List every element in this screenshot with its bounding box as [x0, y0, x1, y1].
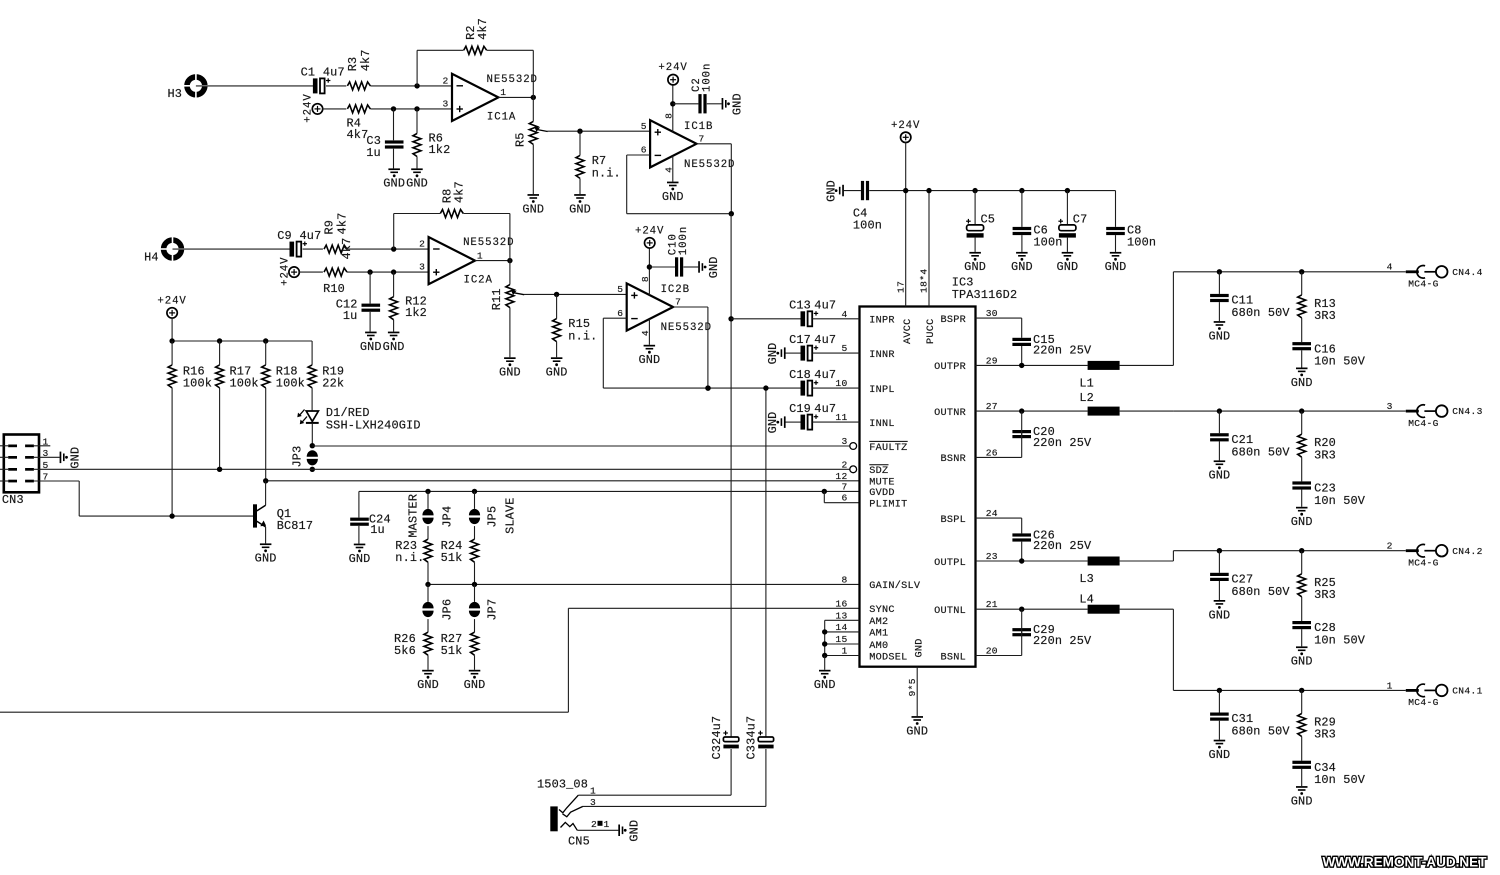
svg-text:L2: L2 — [1079, 391, 1094, 405]
svg-text:GND: GND — [1291, 376, 1313, 390]
svg-text:OUTNL: OUTNL — [934, 606, 966, 617]
svg-text:8: 8 — [841, 574, 847, 585]
+24V supply — [635, 225, 664, 248]
svg-text:GND: GND — [662, 190, 684, 204]
svg-text:H4: H4 — [144, 250, 159, 264]
resistor R9 4k7 — [323, 213, 354, 260]
svg-text:29: 29 — [986, 355, 998, 366]
wire — [976, 655, 1022, 657]
svg-text:MUTE: MUTE — [869, 478, 894, 489]
svg-text:PUCC: PUCC — [926, 319, 937, 344]
ground — [1208, 460, 1230, 482]
svg-text:SSH-LXH240GID: SSH-LXH240GID — [326, 418, 421, 432]
resistor R12 1k2 — [390, 272, 427, 332]
resistor R8 4k7 — [440, 181, 466, 217]
svg-text:4u7: 4u7 — [814, 402, 836, 416]
svg-text:GND: GND — [825, 180, 839, 202]
svg-text:100n: 100n — [1033, 235, 1062, 249]
svg-text:1k2: 1k2 — [405, 306, 427, 320]
svg-text:GAIN/SLV: GAIN/SLV — [869, 580, 921, 592]
svg-text:GND: GND — [464, 678, 486, 692]
svg-text:680n 50V: 680n 50V — [1231, 585, 1290, 599]
ground — [522, 194, 544, 216]
svg-text:4u7: 4u7 — [814, 368, 836, 382]
svg-text:INNL: INNL — [869, 419, 894, 430]
svg-text:CN5: CN5 — [568, 834, 590, 848]
capacitor C31 680n 50V — [1210, 690, 1290, 739]
svg-text:AM2: AM2 — [869, 617, 888, 628]
svg-text:1503_08: 1503_08 — [537, 778, 588, 792]
svg-text:1: 1 — [841, 646, 847, 657]
svg-text:4: 4 — [841, 309, 847, 320]
svg-text:2: 2 — [419, 239, 425, 250]
wire — [1120, 609, 1174, 690]
svg-text:24: 24 — [986, 508, 998, 519]
svg-text:3R3: 3R3 — [1314, 728, 1336, 742]
svg-text:NE5532D: NE5532D — [463, 237, 514, 249]
svg-text:220n 25V: 220n 25V — [1033, 634, 1092, 648]
wire FAULTZ net — [312, 445, 850, 447]
svg-text:2: 2 — [442, 75, 448, 86]
junction — [1217, 269, 1305, 274]
resistor R5 trimmer — [514, 97, 548, 194]
svg-text:6: 6 — [617, 308, 623, 319]
inductor L3 — [1079, 557, 1119, 586]
svg-text:+24V: +24V — [891, 120, 920, 132]
svg-text:R3: R3 — [346, 57, 360, 72]
wire — [0, 446, 8, 481]
svg-text:1u: 1u — [366, 146, 381, 160]
ground — [383, 168, 405, 190]
svg-text:+24V: +24V — [279, 257, 291, 286]
svg-text:L1: L1 — [1079, 376, 1094, 390]
wire — [976, 517, 1022, 519]
svg-text:680n 50V: 680n 50V — [1231, 445, 1290, 459]
wire SYNC net — [0, 608, 860, 712]
svg-text:51k: 51k — [441, 644, 463, 658]
svg-text:GND: GND — [1291, 655, 1313, 669]
junction — [310, 467, 315, 472]
svg-text:5k6: 5k6 — [394, 644, 416, 658]
ground — [1208, 600, 1230, 622]
svg-text:CN4.4: CN4.4 — [1452, 267, 1483, 278]
ground — [349, 544, 371, 566]
svg-text:1: 1 — [604, 819, 610, 830]
ground — [638, 319, 660, 367]
svg-text:GND: GND — [69, 447, 83, 469]
inductor L2 — [1079, 391, 1119, 416]
capacitor C15 220n 25V — [1012, 318, 1092, 365]
ground — [1208, 740, 1230, 762]
svg-text:GND: GND — [499, 366, 521, 380]
svg-text:6: 6 — [841, 493, 847, 504]
wire — [603, 318, 708, 388]
svg-text:R10: R10 — [323, 282, 345, 296]
svg-text:JP4: JP4 — [441, 506, 455, 528]
wire — [299, 271, 323, 273]
connector CN3 — [2, 435, 49, 507]
svg-text:BSNR: BSNR — [941, 454, 966, 465]
svg-text:51k: 51k — [441, 551, 463, 565]
wire — [347, 248, 429, 250]
svg-text:H3: H3 — [168, 87, 183, 101]
capacitor C34 10n 50V — [1292, 761, 1365, 787]
wire MUTE net — [263, 478, 860, 483]
svg-text:1u: 1u — [343, 309, 358, 323]
wire OUTPR — [976, 363, 1088, 368]
capacitor C10 100n — [649, 226, 698, 277]
svg-text:GND: GND — [766, 412, 780, 434]
svg-text:3: 3 — [1387, 401, 1393, 412]
svg-text:12: 12 — [835, 471, 847, 482]
svg-text:+24V: +24V — [635, 225, 664, 237]
capacitor C3 1u — [366, 109, 403, 168]
svg-text:BSPL: BSPL — [941, 515, 966, 526]
capacitor C32 4u7 — [710, 716, 739, 760]
svg-text:9*5: 9*5 — [907, 678, 918, 696]
svg-text:GND: GND — [522, 202, 544, 216]
ground — [1208, 321, 1230, 343]
ground — [722, 93, 745, 115]
svg-text:GND: GND — [1208, 469, 1230, 483]
capacitor C13 4u7 — [789, 299, 859, 327]
wire — [326, 85, 346, 87]
svg-text:3R3: 3R3 — [1314, 309, 1336, 323]
resistor R25 3R3 — [1298, 551, 1336, 621]
capacitor C24 1u — [350, 491, 391, 543]
svg-text:15: 15 — [835, 634, 847, 645]
svg-text:IC2A: IC2A — [464, 275, 493, 287]
wire — [370, 85, 452, 87]
svg-text:220n 25V: 220n 25V — [1033, 539, 1092, 553]
svg-text:GND: GND — [1105, 260, 1127, 274]
svg-text:CN4.2: CN4.2 — [1452, 546, 1483, 557]
op-amp IC2A — [419, 237, 514, 287]
svg-text:GND: GND — [1208, 608, 1230, 622]
svg-text:2: 2 — [591, 819, 597, 830]
ground — [1056, 252, 1078, 274]
svg-text:C5: C5 — [981, 212, 996, 226]
wire — [627, 155, 732, 214]
svg-text:OUTNR: OUTNR — [934, 408, 966, 419]
connector H3 input pad — [168, 73, 209, 101]
svg-text:L4: L4 — [1079, 593, 1094, 607]
capacitor C2 100n — [673, 63, 722, 114]
svg-text:1: 1 — [477, 250, 483, 261]
svg-text:GND: GND — [766, 343, 780, 365]
wire — [670, 85, 675, 132]
wire SDZ net — [34, 467, 850, 472]
wire — [310, 423, 315, 449]
resistor R4 4k7 — [347, 105, 371, 142]
svg-text:GND: GND — [360, 340, 382, 354]
resistor R15 n.i. — [553, 294, 598, 357]
wire OUTPL — [976, 558, 1088, 563]
svg-text:4u7: 4u7 — [323, 66, 345, 80]
svg-text:100n: 100n — [702, 63, 714, 92]
capacitor C6 100n — [1013, 191, 1063, 252]
svg-text:R5: R5 — [514, 132, 528, 147]
capacitor C12 1u — [336, 272, 380, 332]
svg-text:18*4: 18*4 — [919, 269, 930, 293]
wire +24V rail — [869, 142, 1115, 306]
svg-text:C324u7: C324u7 — [710, 716, 724, 760]
svg-text:4k7: 4k7 — [476, 18, 490, 40]
svg-text:GND: GND — [546, 366, 568, 380]
svg-text:MC4-G: MC4-G — [1408, 697, 1439, 708]
svg-text:SDZ: SDZ — [869, 466, 888, 477]
svg-text:2: 2 — [841, 459, 847, 470]
wire — [322, 108, 346, 110]
svg-text:7: 7 — [675, 297, 681, 308]
svg-text:3R3: 3R3 — [1314, 448, 1336, 462]
svg-text:4u7: 4u7 — [814, 299, 836, 313]
svg-text:3R3: 3R3 — [1314, 588, 1336, 602]
ground — [1291, 507, 1313, 529]
svg-text:4k7: 4k7 — [359, 49, 373, 71]
svg-text:n.i.: n.i. — [592, 167, 621, 181]
resistor R19 22k — [308, 341, 344, 411]
svg-text:14: 14 — [835, 622, 847, 633]
op-amp IC1A — [442, 74, 537, 124]
capacitor C5 100u — [966, 191, 995, 252]
junction — [1217, 548, 1305, 553]
ground — [1291, 646, 1313, 668]
svg-text:BSNL: BSNL — [941, 652, 966, 663]
svg-text:4k7: 4k7 — [336, 213, 350, 235]
svg-text:AM1: AM1 — [869, 629, 888, 640]
ground — [406, 168, 428, 190]
jumper JP3 — [291, 446, 318, 468]
wire — [673, 307, 711, 391]
wire — [498, 95, 536, 100]
capacitor C29 220n 25V — [1012, 609, 1092, 655]
svg-text:7: 7 — [841, 481, 847, 492]
svg-text:NE5532D: NE5532D — [487, 74, 538, 86]
svg-text:GND: GND — [1291, 794, 1313, 808]
svg-text:2: 2 — [1387, 541, 1393, 552]
junction — [414, 83, 419, 88]
capacitor C8 100n — [1106, 191, 1156, 252]
svg-text:10n 50V: 10n 50V — [1314, 494, 1366, 508]
svg-text:100k: 100k — [183, 376, 212, 390]
capacitor C28 10n 50V — [1292, 621, 1365, 647]
svg-text:10n 50V: 10n 50V — [1314, 355, 1366, 369]
resistor R18 100k — [262, 341, 305, 481]
svg-text:22k: 22k — [322, 376, 344, 390]
wire — [976, 456, 1022, 458]
svg-text:13: 13 — [835, 610, 847, 621]
svg-text:4u7: 4u7 — [300, 229, 322, 243]
wire — [583, 805, 766, 807]
+24V supply — [279, 257, 299, 286]
svg-text:L3: L3 — [1079, 572, 1094, 586]
svg-text:C334u7: C334u7 — [745, 716, 759, 760]
svg-text:GND: GND — [731, 93, 745, 115]
svg-text:26: 26 — [986, 447, 998, 458]
wire — [976, 317, 1022, 319]
resistor R6 1k2 — [413, 109, 450, 168]
svg-text:IC1B: IC1B — [684, 121, 713, 133]
ground — [964, 252, 986, 274]
wire — [1120, 551, 1174, 561]
wire — [475, 258, 513, 263]
ground — [417, 670, 439, 692]
wire — [303, 248, 323, 250]
wire — [578, 794, 731, 796]
svg-text:BSPR: BSPR — [941, 315, 966, 326]
resistor R7 n.i. — [576, 131, 621, 194]
wire — [169, 318, 312, 344]
svg-text:10: 10 — [835, 378, 847, 389]
wire — [464, 214, 510, 261]
resistor R2 4k7 — [464, 18, 490, 54]
LED D1 SSH-LXH240GID — [297, 406, 420, 432]
capacitor C16 10n 50V — [1292, 342, 1365, 368]
svg-text:GND: GND — [1208, 748, 1230, 762]
svg-text:+24V: +24V — [303, 93, 315, 122]
capacitor C26 220n 25V — [1012, 518, 1092, 561]
svg-text:100n: 100n — [1127, 235, 1156, 249]
wire OUTNR — [976, 408, 1088, 413]
ground — [464, 670, 486, 692]
svg-text:MC4-G: MC4-G — [1408, 418, 1439, 429]
wire — [730, 749, 732, 795]
capacitor C20 220n 25V — [1012, 411, 1092, 457]
ground — [1011, 252, 1033, 274]
svg-text:GND: GND — [255, 552, 277, 566]
svg-text:3: 3 — [419, 262, 425, 273]
svg-text:27: 27 — [986, 401, 998, 412]
wire — [731, 318, 800, 320]
capacitor C19 4u7 — [766, 402, 859, 434]
wire — [196, 85, 313, 87]
inductor L1 — [1079, 361, 1119, 391]
wire — [370, 108, 452, 110]
wire GVDD net — [359, 489, 860, 494]
svg-text:C17: C17 — [789, 333, 811, 347]
+24V supply — [157, 295, 186, 318]
svg-text:C9: C9 — [277, 229, 292, 243]
svg-text:17: 17 — [895, 281, 906, 293]
svg-text:GND: GND — [349, 552, 371, 566]
IC U3 TPA3116D2 box — [860, 276, 1018, 667]
svg-text:JP3: JP3 — [291, 446, 305, 468]
svg-text:23: 23 — [986, 551, 998, 562]
resistor R24 51k — [441, 539, 479, 585]
svg-text:C18: C18 — [789, 368, 811, 382]
ground — [825, 180, 844, 202]
connector CN5 1503_08 — [537, 778, 610, 849]
wire — [647, 248, 652, 295]
ground — [34, 447, 83, 469]
wire — [347, 271, 429, 273]
svg-text:C7: C7 — [1073, 212, 1088, 226]
svg-text:INPL: INPL — [869, 385, 894, 396]
svg-text:BC817: BC817 — [277, 519, 313, 533]
jumper JP6 — [422, 584, 454, 632]
svg-text:PLIMIT: PLIMIT — [869, 500, 907, 511]
svg-text:GND: GND — [417, 678, 439, 692]
svg-text:GND: GND — [707, 256, 721, 278]
svg-text:GND: GND — [406, 177, 428, 191]
+24V supply — [303, 93, 323, 122]
svg-text:GND: GND — [638, 353, 660, 367]
svg-text:TPA3116D2: TPA3116D2 — [952, 288, 1018, 302]
svg-text:n.i.: n.i. — [568, 330, 597, 344]
ground — [1291, 368, 1313, 390]
svg-text:7: 7 — [699, 134, 705, 145]
svg-text:MODSEL: MODSEL — [869, 652, 907, 663]
resistor R26 5k6 — [394, 632, 432, 670]
connector H4 input pad — [144, 237, 185, 265]
svg-text:INNR: INNR — [869, 350, 894, 361]
FAULTZ pin bubble — [850, 443, 857, 450]
svg-text:11: 11 — [835, 412, 847, 423]
wire INPL riser — [765, 388, 767, 736]
svg-text:IC2B: IC2B — [661, 284, 690, 296]
ground — [698, 256, 721, 278]
svg-text:R11: R11 — [490, 288, 504, 310]
svg-text:680n 50V: 680n 50V — [1231, 306, 1290, 320]
ground — [569, 194, 591, 216]
resistor R20 3R3 — [1298, 411, 1336, 481]
svg-text:MASTER: MASTER — [406, 494, 420, 538]
wire — [765, 749, 767, 806]
wire — [173, 248, 290, 250]
junction — [367, 269, 396, 274]
wire — [705, 385, 800, 390]
svg-text:GND: GND — [383, 340, 405, 354]
jumper JP7 — [469, 584, 500, 632]
svg-text:GND: GND — [627, 820, 641, 842]
wire — [697, 144, 735, 217]
svg-text:SYNC: SYNC — [869, 605, 894, 616]
svg-text:220n 25V: 220n 25V — [1033, 344, 1092, 358]
capacitor C21 680n 50V — [1210, 411, 1290, 460]
svg-text:CN4.3: CN4.3 — [1452, 406, 1483, 417]
connector CN4.3 MC4-G — [1173, 401, 1482, 429]
connector CN4.1 MC4-G — [1173, 680, 1482, 708]
capacitor C4 100n — [844, 181, 882, 233]
jumper JP4 MASTER — [406, 491, 454, 539]
svg-text:GND: GND — [906, 724, 928, 738]
svg-text:3: 3 — [442, 98, 448, 109]
ground — [255, 543, 277, 565]
ground — [360, 332, 382, 354]
svg-text:C13: C13 — [789, 299, 811, 313]
svg-text:6: 6 — [641, 145, 647, 156]
transistor Q1 BC817 — [253, 481, 313, 544]
wire GAIN/SLV net — [425, 582, 859, 587]
junction — [391, 106, 420, 111]
inductor L4 — [1079, 593, 1119, 614]
capacitor C27 680n 50V — [1210, 551, 1290, 600]
svg-text:n.i.: n.i. — [395, 551, 424, 565]
svg-text:100n: 100n — [853, 219, 882, 233]
svg-text:SLAVE: SLAVE — [503, 497, 517, 533]
svg-text:3: 3 — [841, 436, 847, 447]
svg-text:MC4-G: MC4-G — [1408, 557, 1439, 568]
connector CN4.2 MC4-G — [1173, 541, 1482, 569]
svg-text:IC1A: IC1A — [487, 112, 516, 124]
svg-text:NE5532D: NE5532D — [684, 159, 735, 171]
svg-text:4: 4 — [1387, 262, 1393, 273]
svg-text:10n 50V: 10n 50V — [1314, 773, 1366, 787]
resistor R16 100k — [168, 341, 212, 516]
svg-text:680n 50V: 680n 50V — [1231, 725, 1290, 739]
SDZ pin bubble — [850, 466, 857, 473]
